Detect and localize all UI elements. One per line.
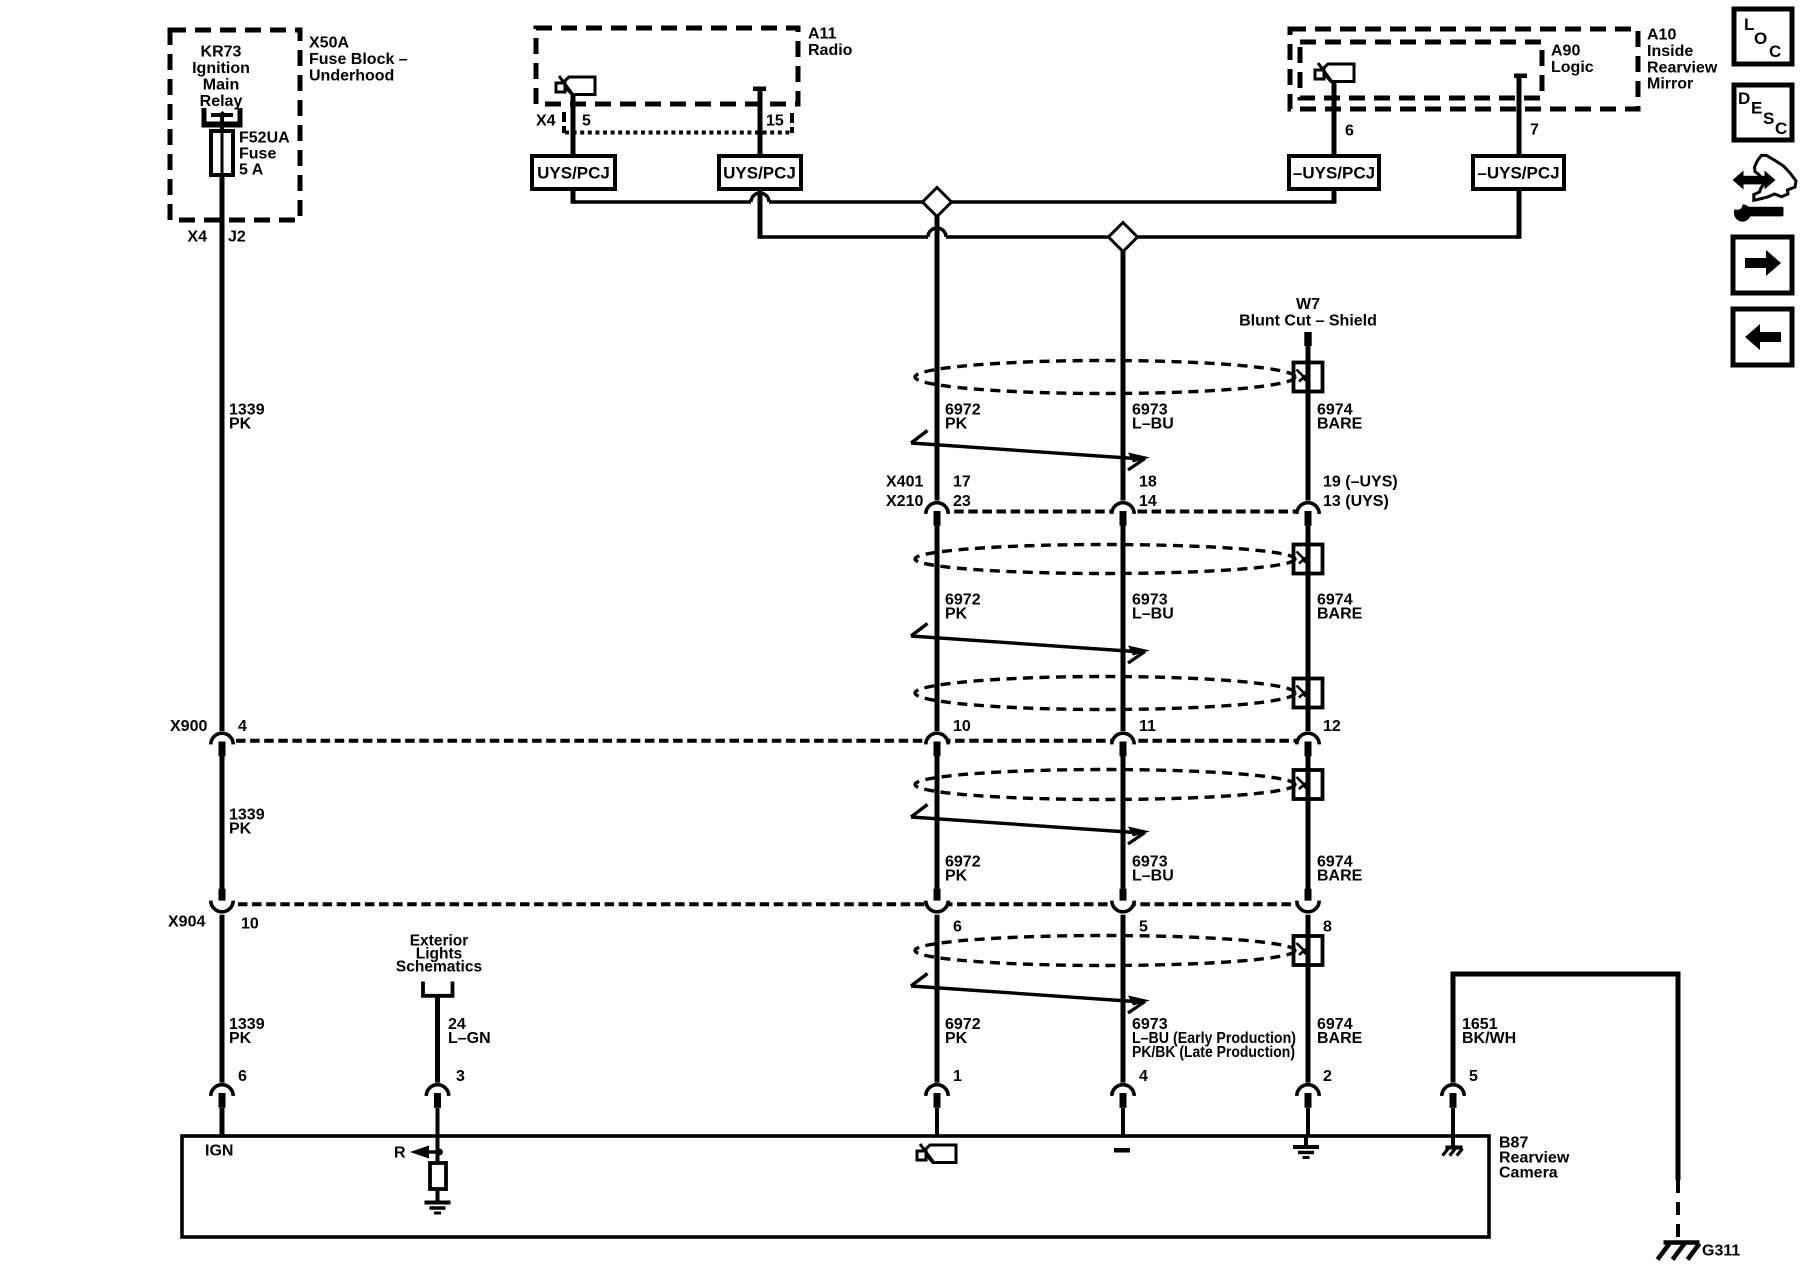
svg-text:Logic: Logic <box>1551 59 1594 76</box>
svg-text:BARE: BARE <box>1317 415 1363 432</box>
svg-text:3: 3 <box>456 1068 465 1085</box>
svg-text:L–GN: L–GN <box>448 1030 491 1047</box>
svg-text:Schematics: Schematics <box>396 958 482 975</box>
svg-text:–UYS/PCJ: –UYS/PCJ <box>1293 163 1375 182</box>
svg-text:7: 7 <box>1530 122 1539 139</box>
svg-text:L–BU: L–BU <box>1132 868 1174 885</box>
svg-text:PK: PK <box>945 606 968 623</box>
svg-text:X4: X4 <box>536 113 556 130</box>
svg-text:5: 5 <box>1469 1068 1478 1085</box>
svg-text:15: 15 <box>766 113 784 130</box>
svg-text:14: 14 <box>1139 493 1157 510</box>
svg-text:PK: PK <box>945 415 968 432</box>
svg-text:PK: PK <box>945 1030 968 1047</box>
svg-text:Mirror: Mirror <box>1647 76 1693 93</box>
svg-text:Ignition: Ignition <box>192 60 250 77</box>
svg-text:A10: A10 <box>1647 27 1676 44</box>
svg-text:KR73: KR73 <box>201 44 242 61</box>
svg-text:6: 6 <box>953 919 962 936</box>
svg-text:X900: X900 <box>170 718 207 735</box>
svg-text:5 A: 5 A <box>239 162 264 179</box>
svg-text:4: 4 <box>238 718 247 735</box>
svg-text:12: 12 <box>1323 718 1341 735</box>
svg-text:W7: W7 <box>1296 296 1320 313</box>
svg-text:11: 11 <box>1139 718 1156 735</box>
svg-text:PK: PK <box>229 1030 252 1047</box>
svg-text:L: L <box>1744 15 1754 34</box>
svg-text:UYS/PCJ: UYS/PCJ <box>537 163 610 182</box>
svg-text:L–BU: L–BU <box>1132 415 1174 432</box>
svg-text:19 (–UYS): 19 (–UYS) <box>1323 473 1398 490</box>
svg-text:BARE: BARE <box>1317 606 1363 623</box>
svg-text:Rearview: Rearview <box>1647 59 1718 76</box>
svg-text:L–BU: L–BU <box>1132 606 1174 623</box>
svg-text:Fuse Block –: Fuse Block – <box>309 51 408 68</box>
svg-text:S: S <box>1763 109 1774 128</box>
svg-text:E: E <box>1751 98 1762 117</box>
svg-text:Relay: Relay <box>200 93 243 110</box>
svg-text:Inside: Inside <box>1647 43 1693 60</box>
svg-text:2: 2 <box>1323 1068 1332 1085</box>
svg-text:X210: X210 <box>886 493 923 510</box>
svg-text:5: 5 <box>1139 919 1148 936</box>
svg-text:Radio: Radio <box>808 42 853 59</box>
svg-text:IGN: IGN <box>205 1143 233 1160</box>
svg-text:6: 6 <box>1345 123 1354 140</box>
svg-text:BARE: BARE <box>1317 868 1363 885</box>
svg-text:23: 23 <box>953 493 971 510</box>
svg-text:17: 17 <box>953 473 971 490</box>
svg-text:PK: PK <box>945 868 968 885</box>
svg-text:D: D <box>1738 89 1750 108</box>
svg-text:C: C <box>1769 42 1781 61</box>
svg-text:G311: G311 <box>1702 1243 1740 1260</box>
svg-text:1: 1 <box>953 1068 962 1085</box>
svg-text:R: R <box>394 1145 406 1162</box>
svg-text:Camera: Camera <box>1499 1165 1558 1182</box>
svg-text:X904: X904 <box>168 914 205 931</box>
svg-text:Fuse: Fuse <box>239 146 276 163</box>
svg-text:J2: J2 <box>228 229 246 246</box>
svg-text:18: 18 <box>1139 473 1157 490</box>
svg-text:F52UA: F52UA <box>239 130 290 147</box>
svg-text:A90: A90 <box>1551 43 1580 60</box>
svg-text:–UYS/PCJ: –UYS/PCJ <box>1477 163 1559 182</box>
svg-text:X401: X401 <box>886 473 923 490</box>
svg-text:O: O <box>1754 29 1767 48</box>
svg-text:Main: Main <box>203 77 239 94</box>
svg-text:Underhood: Underhood <box>309 68 394 85</box>
svg-text:5: 5 <box>582 113 591 130</box>
svg-text:8: 8 <box>1323 919 1332 936</box>
svg-text:10: 10 <box>953 718 971 735</box>
svg-text:10: 10 <box>241 916 259 933</box>
svg-text:BARE: BARE <box>1317 1030 1363 1047</box>
svg-text:PK: PK <box>229 821 252 838</box>
svg-text:PK: PK <box>229 415 252 432</box>
svg-text:Blunt Cut – Shield: Blunt Cut – Shield <box>1239 313 1377 330</box>
svg-text:13 (UYS): 13 (UYS) <box>1323 493 1389 510</box>
svg-text:X50A: X50A <box>309 35 349 52</box>
svg-text:X4: X4 <box>187 229 207 246</box>
svg-text:PK/BK (Late Production): PK/BK (Late Production) <box>1132 1044 1295 1061</box>
svg-text:C: C <box>1775 119 1787 138</box>
svg-text:A11: A11 <box>808 26 837 43</box>
svg-text:4: 4 <box>1139 1068 1148 1085</box>
svg-text:UYS/PCJ: UYS/PCJ <box>723 163 796 182</box>
svg-text:6: 6 <box>238 1068 247 1085</box>
svg-text:BK/WH: BK/WH <box>1462 1030 1516 1047</box>
